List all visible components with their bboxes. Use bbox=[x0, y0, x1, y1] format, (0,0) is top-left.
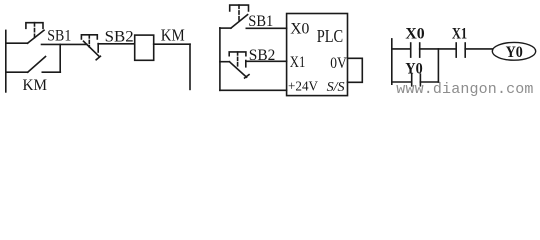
SB2 fixed bar (PLC) bbox=[245, 61, 247, 67]
svg-text:PLC: PLC bbox=[317, 26, 344, 46]
pushbutton SB2 cap bbox=[81, 35, 97, 39]
svg-text:X1: X1 bbox=[452, 25, 467, 42]
branch stub bbox=[437, 49, 439, 82]
svg-text:+24V: +24V bbox=[288, 80, 318, 95]
output coil Y0 ellipse bbox=[492, 42, 535, 60]
svg-text:KM: KM bbox=[23, 77, 48, 94]
coil KM box bbox=[135, 35, 154, 60]
contact Y0 bars bbox=[411, 74, 413, 86]
wire SB2 to coil bbox=[98, 43, 135, 45]
pushbutton SB1 cap bbox=[26, 23, 43, 29]
contact KM blade bbox=[28, 57, 46, 73]
pushbutton SB2 blade tick bbox=[96, 56, 100, 60]
pushbutton SB2 blade (PLC) bbox=[229, 62, 246, 77]
wire X0 to X1 bbox=[420, 48, 457, 50]
pushbutton SB2 stem (PLC) bbox=[237, 52, 239, 66]
svg-text:X0: X0 bbox=[405, 25, 424, 42]
left rail bbox=[5, 30, 7, 92]
svg-text:X0: X0 bbox=[290, 21, 309, 38]
wire coil to right rail bbox=[154, 43, 190, 45]
PLC box bbox=[287, 14, 348, 96]
pushbutton SB2 blade tick (PLC) bbox=[245, 75, 249, 78]
parallel wire bbox=[392, 81, 412, 83]
svg-text:SB1: SB1 bbox=[47, 28, 71, 45]
svg-text:X1: X1 bbox=[290, 54, 306, 71]
svg-text:Y0: Y0 bbox=[405, 60, 422, 77]
svg-text:KM: KM bbox=[161, 26, 185, 45]
wire top branch left bbox=[6, 42, 28, 44]
pushbutton SB1 stem bbox=[34, 23, 36, 38]
contact X1 bars bbox=[455, 43, 457, 57]
wire SB1 to X0 bbox=[246, 27, 286, 29]
pushbutton SB1 blade bbox=[28, 30, 45, 43]
wire bottom branch left bbox=[6, 71, 28, 73]
svg-text:SB2: SB2 bbox=[249, 47, 275, 64]
rung wire bbox=[392, 48, 411, 50]
jumper 0V to S/S bbox=[348, 58, 363, 82]
pushbutton SB1 blade (PLC) bbox=[231, 15, 248, 29]
wire to SB1 bbox=[220, 27, 231, 29]
pushbutton SB1 cap (PLC) bbox=[230, 5, 249, 11]
wire +24V bottom bbox=[220, 89, 287, 91]
ladder left rail bbox=[391, 39, 393, 84]
svg-text:SB2: SB2 bbox=[105, 28, 134, 45]
wire SB2 to X1 bbox=[246, 60, 287, 62]
wire to SB2 bbox=[220, 61, 230, 63]
pushbutton SB2 stem bbox=[88, 35, 90, 47]
SB2 fixed bar bbox=[97, 44, 99, 52]
svg-text:Y0: Y0 bbox=[506, 44, 523, 61]
wire X1 to coil bbox=[465, 48, 492, 50]
wire bottom branch right bbox=[42, 71, 60, 73]
pushbutton SB1 stem (PLC) bbox=[238, 5, 240, 21]
wire Y0 to stub bbox=[420, 81, 438, 83]
right rail bbox=[189, 44, 191, 89]
contact X0 bars bbox=[410, 43, 412, 57]
svg-text:S/S: S/S bbox=[327, 80, 345, 95]
pushbutton SB2 cap (PLC) bbox=[229, 52, 246, 56]
svg-text:0V: 0V bbox=[330, 55, 347, 72]
svg-text:www.diangon.com: www.diangon.com bbox=[396, 81, 533, 98]
wire top branch right bbox=[42, 43, 87, 45]
node junction stub bbox=[59, 44, 61, 72]
svg-text:SB1: SB1 bbox=[248, 13, 273, 30]
left vertical wire bbox=[219, 28, 221, 90]
pushbutton SB2 blade bbox=[84, 41, 100, 56]
